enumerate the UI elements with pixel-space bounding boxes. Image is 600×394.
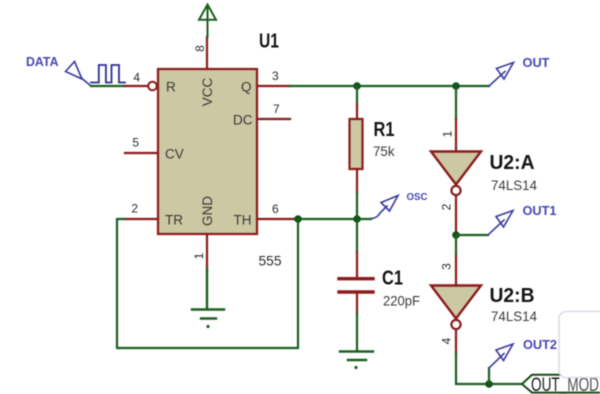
svg-text:1: 1 <box>441 130 455 137</box>
svg-text:DC: DC <box>233 113 253 128</box>
wire OUT2 stub <box>488 368 490 384</box>
svg-text:Q: Q <box>241 80 252 95</box>
svg-text:7: 7 <box>273 102 280 116</box>
inverter U2:A <box>431 152 481 185</box>
svg-text:2: 2 <box>440 203 454 210</box>
pin 7 DC <box>257 118 290 120</box>
pin 5 CV <box>125 152 158 154</box>
svg-text:OSC: OSC <box>407 191 428 203</box>
node OSC terminal <box>371 196 398 219</box>
wire OUT1 stub <box>456 234 488 236</box>
junction TH/feedback <box>294 215 302 223</box>
capacitor C1 <box>339 279 373 292</box>
svg-text:C1: C1 <box>382 268 403 290</box>
svg-text:3: 3 <box>440 263 454 270</box>
ground symbol (pin 1) <box>192 269 224 319</box>
svg-text:555: 555 <box>259 253 282 269</box>
svg-text:5: 5 <box>132 136 139 150</box>
svg-text:TR: TR <box>165 213 183 228</box>
power terminal VCC arrow <box>199 5 216 38</box>
svg-text:OUT2: OUT2 <box>523 337 557 352</box>
pin 2 TR <box>124 218 158 220</box>
junction OUT2 <box>485 380 493 388</box>
svg-text:75k: 75k <box>373 143 395 159</box>
pin 6 TH <box>257 218 294 220</box>
svg-text:3: 3 <box>272 69 279 83</box>
wire C1 top <box>356 219 358 252</box>
pin 4 R (with bubble) <box>125 85 148 87</box>
wire U2:A output <box>455 196 457 236</box>
svg-text:U1: U1 <box>259 31 279 53</box>
svg-text:6: 6 <box>272 202 279 216</box>
pulse symbol <box>91 65 125 83</box>
svg-text:74LS14: 74LS14 <box>491 308 537 324</box>
inverter U2:B <box>431 286 481 319</box>
svg-text:2: 2 <box>131 202 138 216</box>
svg-text:4: 4 <box>440 337 454 344</box>
pin 3 Q <box>257 85 290 87</box>
node OUT1 terminal <box>488 211 513 236</box>
svg-text:CV: CV <box>165 147 184 162</box>
junction Q/R1 <box>353 82 361 90</box>
svg-text:R: R <box>166 80 176 95</box>
svg-text:U2:A: U2:A <box>490 152 535 174</box>
wire TR feedback <box>117 219 298 348</box>
wire U2:B input <box>455 235 457 256</box>
junction Q/U2A input <box>452 82 460 90</box>
wire R1 top <box>356 86 358 104</box>
op-amp U1 555 body <box>158 69 257 234</box>
junction TH/R1/C1 <box>353 215 361 223</box>
wire C1 bottom <box>356 294 358 314</box>
wire OUT2 net <box>456 353 522 384</box>
overlay panel (bottom-right) <box>559 312 600 378</box>
svg-text:VCC: VCC <box>200 78 215 107</box>
node OUT2 terminal <box>489 344 513 368</box>
resistor R1 <box>350 119 363 169</box>
svg-text:8: 8 <box>193 45 207 52</box>
svg-text:1: 1 <box>192 252 206 259</box>
node OUT_MOD tag <box>522 375 600 393</box>
wire U2:A input <box>455 86 457 119</box>
svg-text:4: 4 <box>133 71 140 85</box>
svg-text:GND: GND <box>200 196 215 226</box>
pin 1 GND <box>206 234 208 269</box>
svg-text:R1: R1 <box>374 119 395 141</box>
wire DATA to pin 4 <box>91 85 125 87</box>
wire Q net (pin3 to OUT) <box>290 85 489 87</box>
svg-text:74LS14: 74LS14 <box>491 177 537 193</box>
wire R1 bottom <box>356 169 358 193</box>
svg-text:OUT1: OUT1 <box>523 203 557 218</box>
pin 8 VCC <box>206 37 208 69</box>
node DATA terminal <box>66 62 92 87</box>
wire TH net <box>294 218 371 220</box>
wire U2:B output <box>455 330 457 354</box>
junction OUT1 <box>452 231 460 239</box>
svg-text:TH: TH <box>234 213 252 228</box>
svg-text:U2:B: U2:B <box>490 285 535 307</box>
svg-text:OUT: OUT <box>523 55 550 70</box>
ground symbol (C1) <box>340 352 373 361</box>
node OUT terminal <box>489 63 514 87</box>
svg-text:DATA: DATA <box>26 54 59 69</box>
svg-text:220pF: 220pF <box>383 293 420 309</box>
